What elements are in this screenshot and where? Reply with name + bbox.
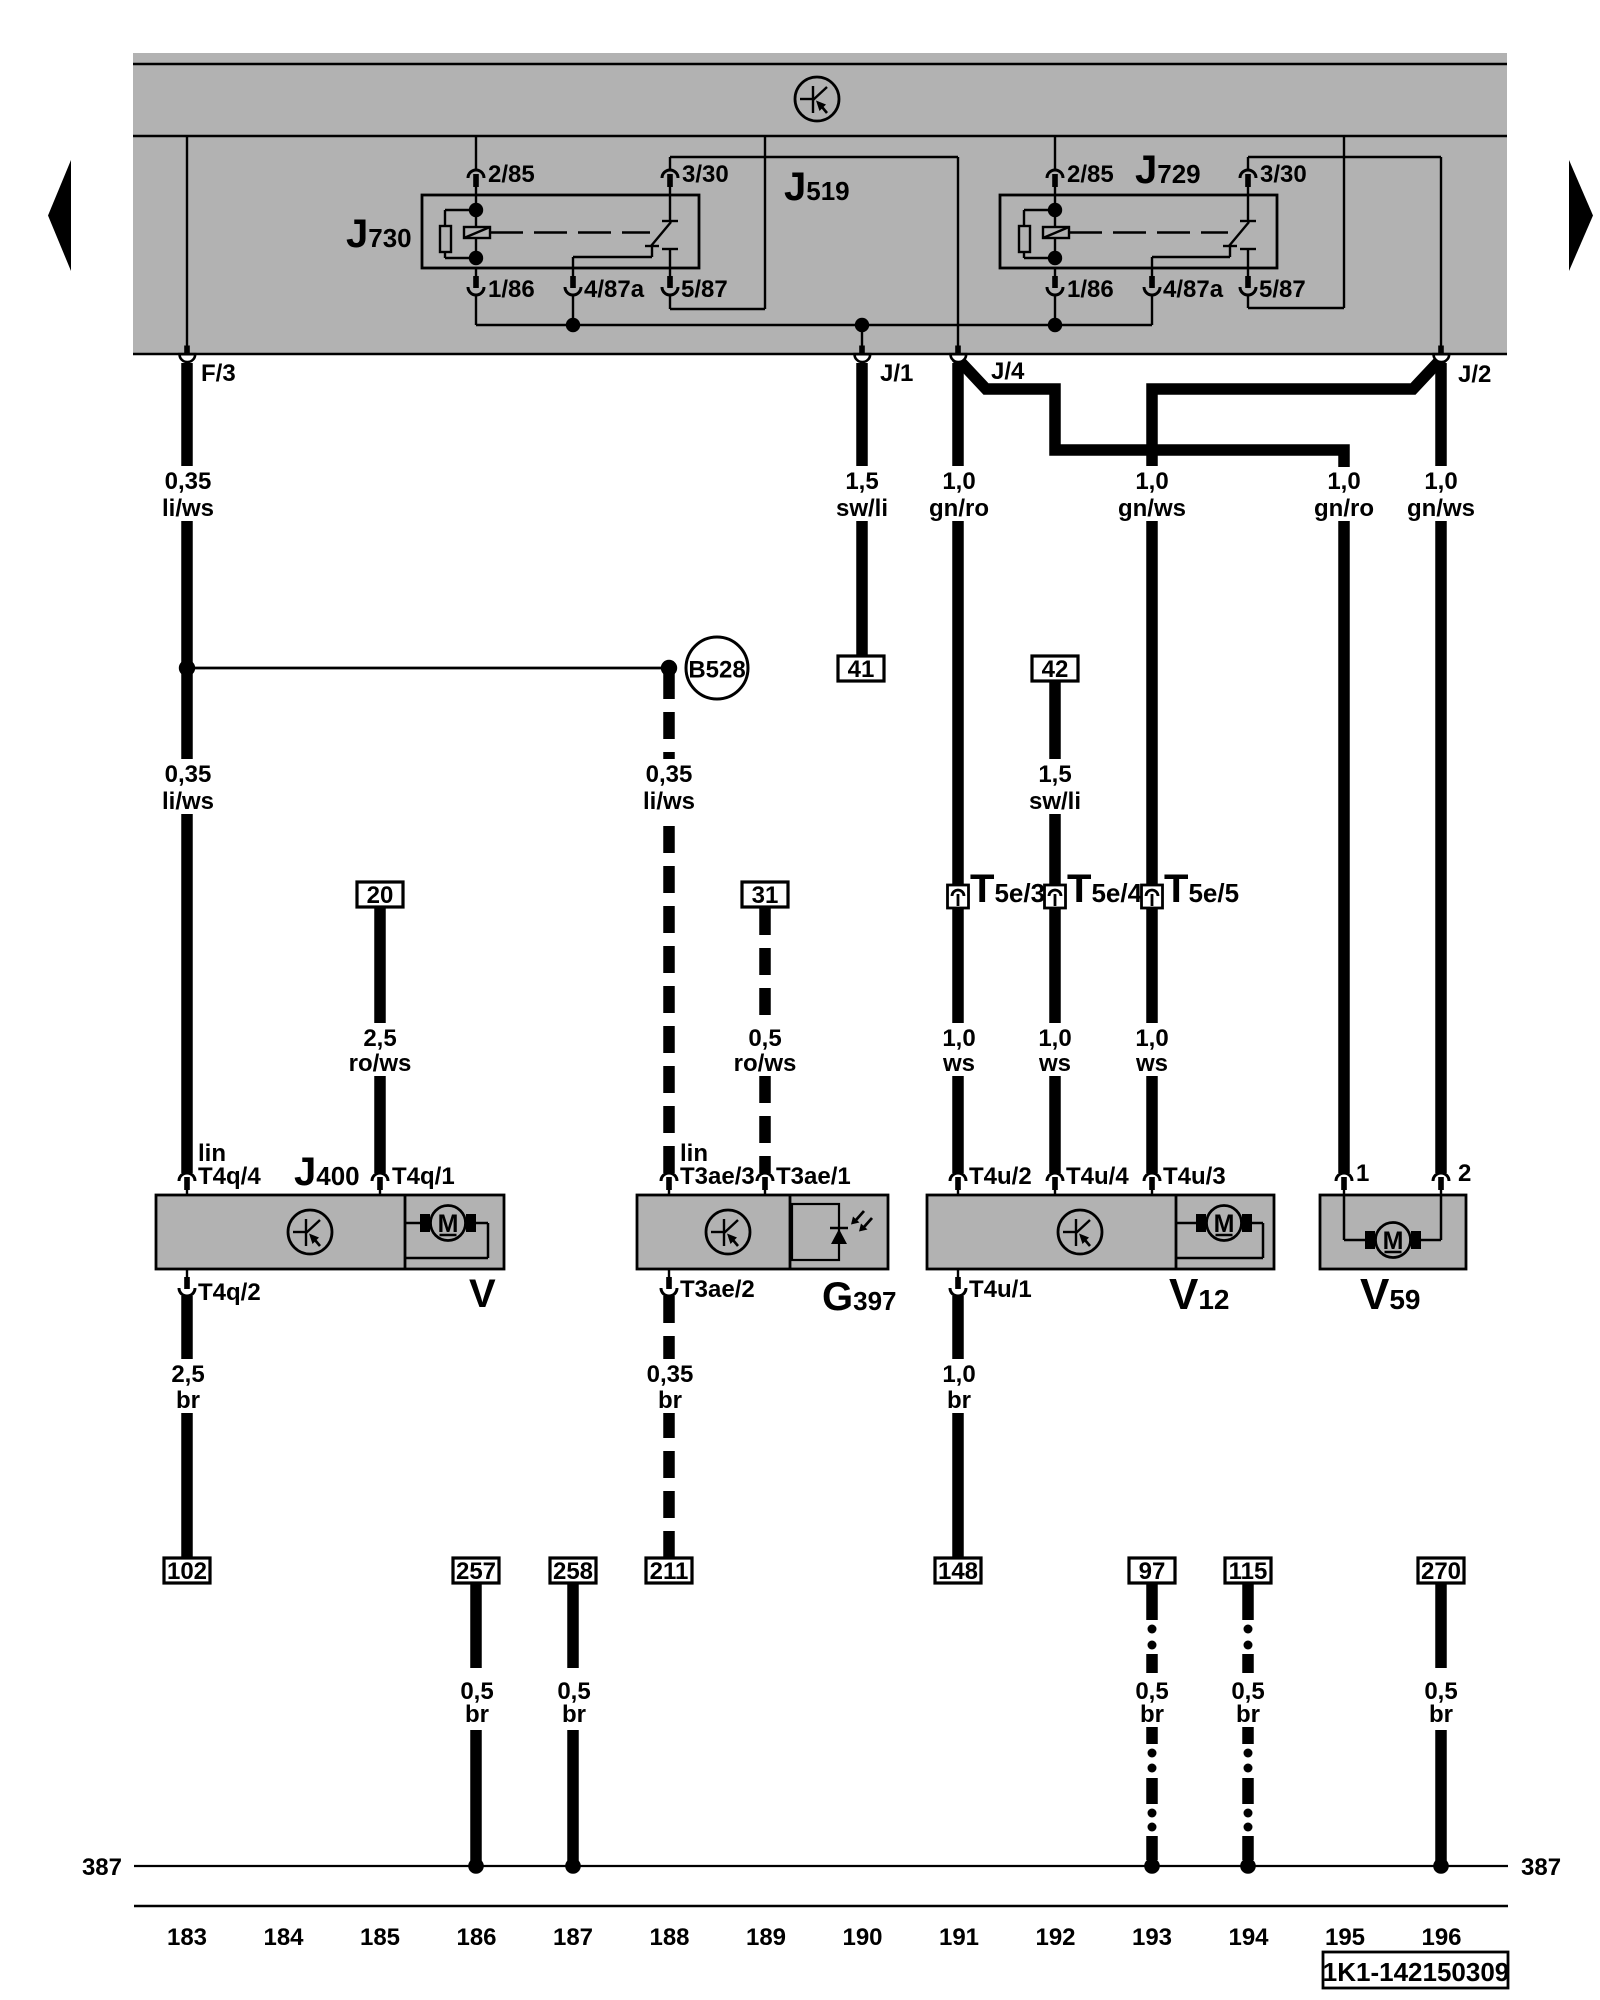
svg-text:5/87: 5/87 [1259,276,1306,303]
svg-text:V: V [469,1272,496,1316]
svg-text:189: 189 [746,1924,786,1951]
svg-text:0,35: 0,35 [646,761,693,788]
svg-text:0,35: 0,35 [165,468,212,495]
svg-text:190: 190 [842,1924,882,1951]
svg-text:1K1-142150309: 1K1-142150309 [1323,1957,1510,1987]
svg-text:97: 97 [1139,1558,1166,1585]
svg-text:li/ws: li/ws [162,788,214,815]
svg-text:J/4: J/4 [991,358,1025,385]
svg-text:gn/ws: gn/ws [1407,495,1475,522]
svg-text:4/87a: 4/87a [1163,276,1224,303]
svg-text:1,5: 1,5 [1038,761,1071,788]
svg-text:br: br [947,1387,971,1414]
svg-text:T4u/3: T4u/3 [1163,1163,1226,1190]
svg-text:1,0: 1,0 [942,1025,975,1052]
svg-text:196: 196 [1421,1924,1461,1951]
svg-text:2/85: 2/85 [488,161,535,188]
svg-text:211: 211 [650,1558,689,1585]
svg-text:T4u/1: T4u/1 [969,1276,1032,1303]
svg-text:270: 270 [1421,1558,1461,1585]
svg-text:li/ws: li/ws [162,495,214,522]
svg-text:0,35: 0,35 [165,761,212,788]
svg-text:gn/ws: gn/ws [1118,495,1186,522]
svg-text:1,0: 1,0 [1327,468,1360,495]
svg-text:194: 194 [1228,1924,1269,1951]
svg-text:B528: B528 [688,657,745,684]
svg-text:148: 148 [938,1558,978,1585]
svg-text:41: 41 [848,656,875,683]
svg-text:br: br [1429,1701,1453,1728]
svg-text:257: 257 [456,1558,496,1585]
svg-text:T3ae/2: T3ae/2 [680,1276,755,1303]
svg-text:183: 183 [167,1924,207,1951]
svg-text:ws: ws [1038,1050,1071,1077]
svg-text:T3ae/3: T3ae/3 [680,1163,755,1190]
svg-text:188: 188 [649,1924,689,1951]
svg-text:3/30: 3/30 [682,161,729,188]
svg-text:195: 195 [1325,1924,1365,1951]
svg-text:gn/ro: gn/ro [929,495,989,522]
svg-text:3/30: 3/30 [1260,161,1307,188]
svg-text:br: br [465,1701,489,1728]
svg-text:191: 191 [939,1924,979,1951]
svg-text:5/87: 5/87 [681,276,728,303]
svg-text:1,0: 1,0 [1424,468,1457,495]
svg-text:br: br [562,1701,586,1728]
svg-text:2,5: 2,5 [363,1025,396,1052]
svg-text:0,35: 0,35 [647,1361,694,1388]
svg-text:1,0: 1,0 [942,1361,975,1388]
svg-text:br: br [176,1387,200,1414]
svg-text:4/87a: 4/87a [584,276,645,303]
svg-text:1,0: 1,0 [1135,468,1168,495]
svg-text:T4q/2: T4q/2 [198,1279,261,1306]
svg-text:192: 192 [1035,1924,1075,1951]
svg-text:J/1: J/1 [880,360,913,387]
svg-text:T3ae/1: T3ae/1 [776,1163,851,1190]
svg-text:gn/ro: gn/ro [1314,495,1374,522]
svg-text:br: br [658,1387,682,1414]
svg-text:T4q/1: T4q/1 [392,1163,455,1190]
svg-text:ro/ws: ro/ws [349,1050,412,1077]
svg-text:1,0: 1,0 [1135,1025,1168,1052]
svg-text:115: 115 [1229,1558,1268,1585]
svg-text:258: 258 [553,1558,593,1585]
svg-text:T4u/4: T4u/4 [1066,1163,1129,1190]
svg-text:F/3: F/3 [201,360,236,387]
svg-text:387: 387 [1521,1854,1561,1881]
svg-text:1,0: 1,0 [942,468,975,495]
svg-text:li/ws: li/ws [643,788,695,815]
svg-text:J/2: J/2 [1458,361,1491,388]
svg-text:186: 186 [456,1924,496,1951]
svg-text:1,0: 1,0 [1038,1025,1071,1052]
svg-text:T4q/4: T4q/4 [198,1163,261,1190]
svg-text:T4u/2: T4u/2 [969,1163,1032,1190]
svg-text:1: 1 [1356,1160,1369,1187]
svg-text:0,5: 0,5 [748,1025,781,1052]
svg-text:sw/li: sw/li [1029,788,1081,815]
svg-text:187: 187 [553,1924,593,1951]
svg-text:ws: ws [1135,1050,1168,1077]
svg-text:185: 185 [360,1924,400,1951]
svg-text:1,5: 1,5 [845,468,878,495]
svg-text:2: 2 [1458,1160,1471,1187]
svg-text:20: 20 [367,882,394,909]
svg-text:387: 387 [82,1854,122,1881]
svg-text:1/86: 1/86 [1067,276,1114,303]
svg-text:2/85: 2/85 [1067,161,1114,188]
svg-text:193: 193 [1132,1924,1172,1951]
svg-text:2,5: 2,5 [171,1361,204,1388]
svg-text:102: 102 [167,1558,207,1585]
svg-text:31: 31 [752,882,779,909]
svg-text:br: br [1236,1701,1260,1728]
svg-text:sw/li: sw/li [836,495,888,522]
svg-text:ro/ws: ro/ws [734,1050,797,1077]
svg-text:ws: ws [942,1050,975,1077]
svg-text:42: 42 [1042,656,1069,683]
svg-text:184: 184 [263,1924,304,1951]
svg-text:br: br [1140,1701,1164,1728]
svg-text:1/86: 1/86 [488,276,535,303]
